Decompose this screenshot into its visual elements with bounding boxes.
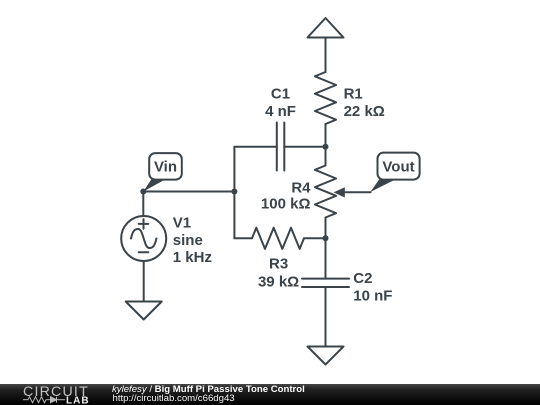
svg-text:LAB: LAB [66,396,90,405]
ground (V1) [126,302,162,320]
svg-text:39 kΩ: 39 kΩ [258,273,299,290]
flag Vout [370,153,419,192]
flag Vin [143,153,181,191]
svg-text:1 kHz: 1 kHz [173,249,212,266]
svg-text:10 nF: 10 nF [353,288,392,305]
svg-text:R3: R3 [269,256,288,273]
ground (C2) [308,347,344,365]
svg-text:Vin: Vin [154,159,177,176]
wire Vin node to V1 [142,192,144,217]
wire node A to C1 right plate [284,146,325,148]
capacitor C1 [277,123,285,171]
wire left rail vertical [233,147,235,239]
capacitor C2 [302,279,349,287]
svg-text:V1: V1 [173,214,191,231]
svg-text:22 kΩ: 22 kΩ [344,103,385,120]
wire VCC to R1 [325,38,327,73]
wire R3 left [234,237,252,239]
node Vin-rail junction [231,189,237,195]
resistor R3 [252,228,304,249]
potentiometer R4 [315,166,371,218]
node B junction [323,235,329,241]
voltage source V1 [121,216,166,261]
svg-text:R4: R4 [291,180,311,197]
footer bar [0,384,540,405]
wire node B to C2 [325,238,327,278]
resistor R1 [315,72,336,124]
svg-text:C1: C1 [271,86,290,103]
wire node A to R4 [325,147,327,166]
svg-text:sine: sine [173,232,203,249]
svg-text:100 kΩ: 100 kΩ [261,196,311,213]
wire C1 left plate to left rail [234,146,276,148]
svg-text:http://circuitlab.com/c66dg43: http://circuitlab.com/c66dg43 [113,393,235,404]
node A junction [323,144,329,150]
wire Vin horizontal [143,191,234,193]
svg-text:R1: R1 [344,86,363,103]
wire R3 right to node B [304,237,326,239]
wire R4 to node B [325,218,327,239]
svg-text:Vout: Vout [382,158,414,175]
wire V1 to ground [143,261,145,302]
node Vin junction [140,189,146,195]
svg-text:4 nF: 4 nF [265,103,296,120]
svg-text:C2: C2 [353,270,372,287]
power arrow VCC [308,18,344,38]
wire R1 to node A [325,124,327,147]
logo resistor-diode squiggle [23,397,65,403]
wire C2 to ground [325,287,327,347]
